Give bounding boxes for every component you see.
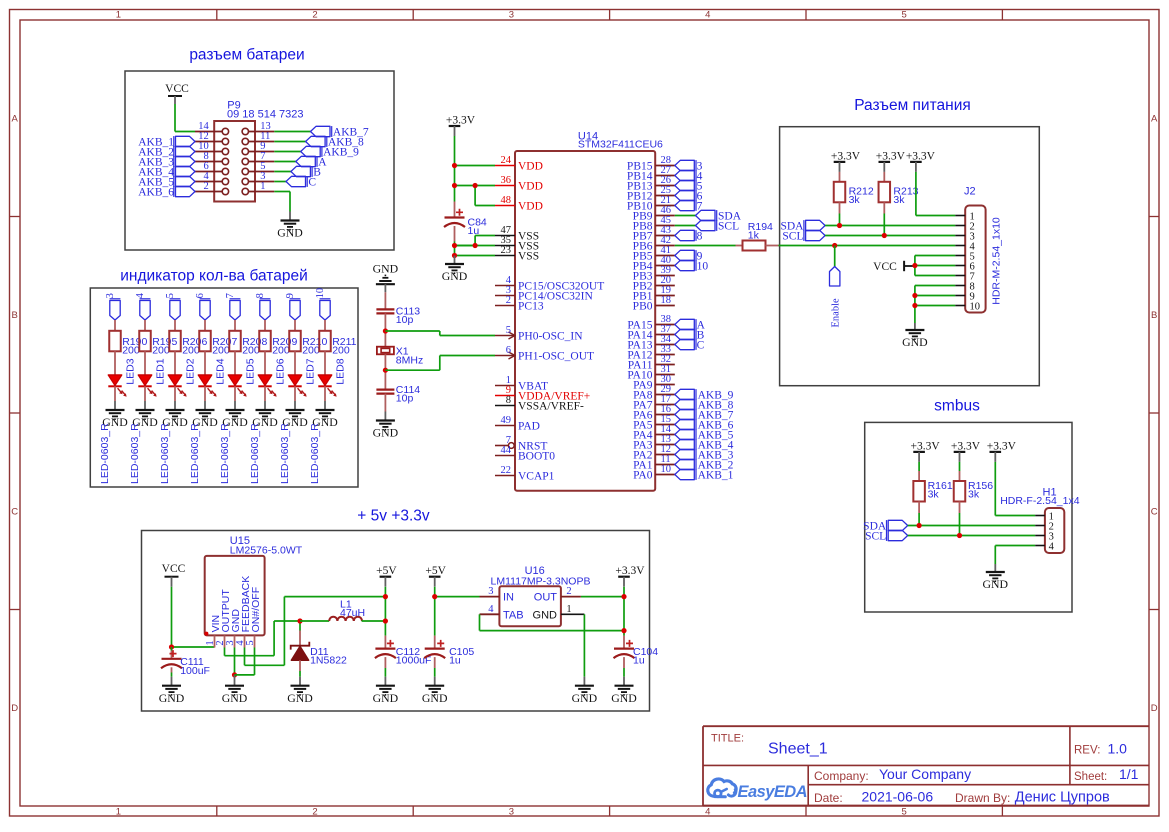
ground — [252, 401, 278, 429]
net flag AKB_7 — [675, 409, 734, 421]
net flag AKB_4 — [675, 439, 734, 451]
svg-text:A: A — [12, 114, 19, 125]
U14 pin 47 VSS — [495, 225, 539, 242]
svg-text:+ 5v +3.3v: + 5v +3.3v — [357, 508, 430, 525]
wire — [171, 667, 173, 676]
net flag AKB_9 — [675, 389, 734, 401]
section box + 5v +3.3v — [142, 531, 650, 712]
resistor R195 — [139, 331, 177, 357]
P9 pin 4 — [195, 171, 229, 185]
ground — [159, 677, 185, 705]
net flag SCL — [865, 530, 908, 542]
ground — [442, 256, 468, 284]
svg-text:LED6: LED6 — [274, 358, 286, 384]
svg-text:1.0: 1.0 — [1108, 740, 1128, 756]
ground — [162, 401, 188, 429]
J2 pin 7 — [955, 271, 974, 282]
svg-text:AKB_1: AKB_1 — [698, 469, 734, 481]
resistor R161 — [913, 462, 953, 502]
svg-text:GND: GND — [159, 691, 185, 705]
svg-text:4: 4 — [705, 10, 710, 21]
net flag B — [291, 166, 321, 178]
svg-text:Денис Цупров: Денис Цупров — [1015, 790, 1110, 806]
resistor R208 — [229, 331, 267, 357]
svg-text:EasyEDA: EasyEDA — [738, 783, 808, 801]
J2 pin 6 — [955, 261, 974, 272]
wire PB6 to R194 — [675, 245, 736, 247]
junction — [232, 672, 237, 677]
svg-text:3k: 3k — [968, 489, 980, 501]
wire — [434, 657, 436, 677]
junction — [452, 243, 457, 248]
resistor R210 — [289, 331, 327, 357]
P9 pin 6 — [195, 161, 229, 175]
wire P9 to AKB_8 — [274, 141, 305, 143]
junction — [621, 594, 626, 599]
wire R213 to SCL — [883, 202, 885, 235]
wire ON#/OFF to ground — [235, 648, 255, 675]
net flag SDA — [696, 210, 742, 222]
svg-text:5: 5 — [506, 325, 511, 336]
svg-text:VCC: VCC — [873, 261, 897, 273]
wire — [384, 354, 386, 390]
U14 pin 1 VBAT — [495, 375, 548, 392]
wire P9 to A — [274, 161, 296, 163]
svg-text:GND: GND — [222, 691, 248, 705]
svg-text:J2: J2 — [964, 185, 976, 197]
wire GND pin to ground — [234, 648, 236, 675]
P9 pin 1 — [242, 181, 274, 195]
svg-text:200: 200 — [332, 344, 350, 356]
connector H1 — [1045, 508, 1064, 553]
net flag 5 — [675, 180, 703, 192]
net flag AKB_7 — [311, 126, 369, 138]
net flag AKB_6 — [138, 186, 195, 198]
junction — [917, 523, 922, 528]
svg-text:LM1117MP-3.3NOPB: LM1117MP-3.3NOPB — [491, 575, 591, 587]
svg-text:1k: 1k — [748, 230, 760, 242]
net flag AKB_2 — [138, 146, 195, 158]
ground — [611, 677, 637, 705]
ground — [983, 564, 1009, 591]
net flag C — [286, 176, 316, 188]
U14 pin 45 PB8 — [633, 215, 675, 232]
svg-text:индикатор кол-ва батарей: индикатор кол-ва батарей — [120, 268, 307, 285]
capacitor C84 — [444, 202, 487, 238]
regulator U16 — [499, 586, 561, 626]
EasyEDA logo — [708, 779, 807, 801]
U16 pin 2 OUT — [534, 586, 581, 604]
net flag C — [675, 339, 705, 351]
resistor R213 — [879, 172, 919, 206]
U14 pin 44 BOOT0 — [495, 445, 555, 462]
svg-text:2: 2 — [204, 181, 209, 192]
svg-text:6: 6 — [506, 345, 511, 356]
wire — [174, 351, 176, 375]
net flag 8 — [255, 293, 270, 320]
U14 pin 38 PA15 — [627, 314, 674, 331]
junction — [473, 243, 478, 248]
wire SDA to J2 pin 2 — [825, 225, 955, 227]
ground — [192, 401, 218, 429]
svg-text:TAB: TAB — [503, 609, 524, 621]
svg-text:5: 5 — [165, 293, 176, 298]
wire — [204, 351, 206, 375]
section box разъем батареи — [125, 71, 394, 250]
svg-text:10: 10 — [970, 301, 981, 312]
U14 pin 12 PA2 — [633, 444, 675, 461]
wire — [114, 386, 116, 401]
U14 pin 7 NRST — [495, 435, 547, 452]
P9 pin 11 — [242, 131, 274, 145]
U14 pin 9 VDDA/VREF+ — [495, 385, 590, 402]
svg-text:1/1: 1/1 — [1119, 766, 1139, 782]
junction — [383, 328, 388, 333]
U14 pin 17 PA7 — [633, 394, 675, 411]
svg-text:2: 2 — [566, 586, 571, 597]
svg-text:REV:: REV: — [1074, 745, 1100, 757]
svg-text:ON#/OFF: ON#/OFF — [250, 587, 262, 633]
U14 pin 27 PB14 — [627, 165, 675, 182]
svg-text:LED-0603_R: LED-0603_R — [129, 423, 141, 484]
svg-text:100uF: 100uF — [180, 665, 210, 677]
wire — [234, 351, 236, 375]
wire +5V rail to C112 — [384, 587, 386, 649]
U16 pin 4 TAB — [480, 604, 524, 622]
LED LED6 — [258, 358, 286, 396]
U14 pin 5 PH0-OSC_IN — [495, 325, 583, 342]
power VCC — [162, 563, 186, 587]
junction — [882, 233, 887, 238]
svg-text:9: 9 — [285, 293, 296, 298]
wire — [204, 320, 206, 331]
svg-text:A: A — [1151, 114, 1158, 125]
svg-text:PAD: PAD — [518, 420, 540, 432]
svg-text:3k: 3k — [893, 194, 905, 206]
U14 pin 20 PB2 — [633, 275, 675, 292]
svg-text:5: 5 — [902, 806, 907, 817]
svg-text:Company:: Company: — [814, 769, 869, 783]
wire TAB to +3.3V rail — [480, 614, 625, 630]
svg-text:+5V: +5V — [425, 565, 446, 577]
svg-text:18: 18 — [661, 295, 672, 306]
wire +3.3V to H1 pin 1 — [995, 462, 1035, 516]
net flag SCL — [696, 220, 740, 232]
resistor R190 — [109, 331, 147, 357]
svg-text:GND: GND — [611, 691, 637, 705]
svg-text:GND: GND — [572, 691, 598, 705]
wire to PH0-OSC_IN — [385, 331, 495, 336]
LED LED4 — [198, 358, 226, 396]
U14 pin 39 PB3 — [633, 265, 675, 282]
wire D11 to L1 — [300, 620, 329, 622]
U14 pin 36 VDD — [495, 175, 543, 192]
svg-text:22: 22 — [501, 465, 512, 476]
U14 pin 28 PB15 — [627, 155, 675, 172]
U15 pin 3 GND — [225, 609, 242, 648]
svg-text:10: 10 — [697, 260, 709, 272]
capacitor C112 — [375, 640, 432, 667]
junction — [957, 533, 962, 538]
net flag AKB_8 — [306, 136, 364, 148]
U14 pin 6 PH1-OSC_OUT — [495, 345, 594, 362]
junction — [383, 618, 388, 623]
ground — [373, 412, 399, 440]
svg-text:GND: GND — [287, 691, 313, 705]
svg-text:2: 2 — [506, 295, 511, 306]
wire R156 to SCL — [959, 502, 961, 536]
wire P9 to AKB_9 — [274, 151, 300, 153]
net flag AKB_5 — [138, 176, 195, 188]
wire — [384, 313, 386, 346]
capacitor C104 — [614, 640, 659, 667]
U16 pin 3 IN — [480, 586, 515, 604]
U14 pin 49 PAD — [495, 415, 540, 432]
wire — [174, 386, 176, 401]
svg-text:smbus: smbus — [934, 398, 980, 415]
U14 pin 30 PA9 — [633, 374, 675, 391]
svg-text:09 18 514 7323: 09 18 514 7323 — [227, 109, 303, 121]
svg-text:1u: 1u — [449, 655, 461, 667]
net flag AKB_1 — [675, 469, 734, 481]
wire — [144, 320, 146, 331]
svg-text:49: 49 — [501, 415, 512, 426]
svg-text:GND: GND — [902, 335, 928, 349]
svg-text:AKB_6: AKB_6 — [138, 186, 174, 198]
net flag AKB_5 — [675, 429, 734, 441]
LED LED8 — [318, 358, 346, 396]
svg-text:C: C — [11, 507, 18, 518]
svg-text:200: 200 — [212, 344, 230, 356]
wire — [294, 386, 296, 401]
svg-text:разъем батареи: разъем батареи — [189, 47, 304, 64]
svg-text:200: 200 — [122, 344, 140, 356]
wire — [384, 394, 386, 412]
net flag 9 — [675, 250, 703, 262]
wire — [144, 351, 146, 375]
svg-text:+3.3V: +3.3V — [831, 150, 861, 162]
wire — [174, 320, 176, 331]
svg-text:2: 2 — [312, 806, 317, 817]
junction — [452, 183, 457, 188]
svg-text:10: 10 — [661, 464, 672, 475]
svg-text:STM32F411CEU6: STM32F411CEU6 — [578, 139, 663, 151]
net flag A — [675, 319, 706, 331]
wire R194 to J2 pin 4 — [779, 245, 956, 247]
capacitor C113 — [376, 306, 420, 327]
svg-text:7: 7 — [225, 293, 236, 298]
ground — [282, 401, 308, 429]
svg-text:8: 8 — [697, 230, 703, 242]
U14 pin 35 VSS — [495, 235, 539, 252]
resistor R206 — [169, 331, 207, 357]
ground — [422, 677, 448, 705]
power +3.3V — [906, 150, 936, 172]
svg-text:+3.3V: +3.3V — [911, 440, 941, 452]
U15 pin 1 VIN — [205, 615, 222, 648]
LED LED5 — [228, 358, 256, 396]
svg-text:BOOT0: BOOT0 — [518, 450, 555, 462]
svg-text:10p: 10p — [396, 393, 414, 405]
power +3.3V — [615, 565, 645, 587]
net flag 4 — [135, 292, 150, 320]
svg-text:48: 48 — [501, 195, 512, 206]
wire — [294, 320, 296, 331]
svg-text:VSSA/VREF-: VSSA/VREF- — [518, 400, 584, 412]
P9 pin 14 — [195, 121, 229, 135]
svg-text:Sheet_1: Sheet_1 — [768, 740, 828, 757]
net flag 10 — [675, 260, 709, 272]
U14 pin 25 PB12 — [627, 185, 675, 202]
svg-text:GND: GND — [373, 426, 399, 440]
svg-text:LED-0603_R: LED-0603_R — [99, 423, 111, 484]
svg-text:5: 5 — [902, 10, 907, 21]
svg-text:D: D — [11, 703, 18, 714]
svg-text:GND: GND — [442, 269, 468, 283]
svg-text:C: C — [308, 176, 316, 188]
net flag 9 — [285, 293, 300, 320]
svg-text:GND: GND — [533, 609, 558, 621]
U14 pin 23 VSS — [495, 245, 539, 262]
svg-text:B: B — [12, 310, 18, 321]
U15 pin 5 ON#/OFF — [245, 587, 262, 648]
net flag 8 — [675, 230, 703, 242]
P9 pin 8 — [195, 151, 229, 165]
svg-text:Enable: Enable — [831, 298, 842, 327]
U14 pin 4 PC15/OSC32OUT — [495, 275, 604, 292]
svg-text:IN: IN — [503, 592, 514, 604]
junction — [912, 293, 917, 298]
wire — [204, 386, 206, 401]
wire SCL to J2 pin 3 — [825, 235, 955, 237]
resistor R211 — [319, 331, 356, 357]
junction — [297, 618, 302, 623]
net flag SDA — [863, 520, 908, 532]
junction — [837, 223, 842, 228]
U14 pin 18 PB0 — [633, 295, 675, 312]
svg-text:Your Company: Your Company — [879, 766, 971, 782]
svg-text:200: 200 — [272, 344, 290, 356]
svg-text:LED1: LED1 — [154, 358, 166, 384]
U14 pin 15 PA5 — [633, 414, 675, 431]
svg-text:VCAP1: VCAP1 — [518, 470, 555, 482]
svg-text:LM2576-5.0WT: LM2576-5.0WT — [230, 544, 303, 556]
net flag 3 — [675, 160, 703, 172]
capacitor C105 — [424, 640, 474, 667]
J2 pin 9 — [955, 291, 974, 302]
crystal X1 — [377, 345, 423, 366]
svg-text:LED-0603_R: LED-0603_R — [249, 423, 261, 484]
wire +3.3V to J2 pin 1 — [916, 172, 955, 216]
U14 pin 40 PB4 — [633, 255, 675, 272]
svg-text:4: 4 — [1049, 541, 1055, 552]
ground — [572, 677, 598, 705]
wire — [144, 386, 146, 401]
power VCC — [873, 261, 915, 273]
svg-text:VDD: VDD — [518, 180, 543, 192]
svg-text:VCC: VCC — [162, 563, 186, 575]
svg-text:LED-0603_R: LED-0603_R — [219, 423, 231, 484]
wire J2 pins 8-10 to GND — [915, 286, 955, 324]
power +3.3V — [911, 440, 941, 462]
net flag AKB_8 — [675, 399, 734, 411]
svg-text:AKB_9: AKB_9 — [323, 146, 359, 158]
svg-text:GND: GND — [373, 691, 399, 705]
svg-text:10: 10 — [315, 288, 326, 299]
net flag AKB_9 — [301, 146, 359, 158]
svg-text:4: 4 — [705, 806, 710, 817]
resistor R194 — [736, 221, 779, 250]
section box индикатор кол-ва батарей — [90, 288, 358, 487]
connector J2 — [965, 206, 985, 313]
wire — [324, 351, 326, 375]
svg-text:1: 1 — [116, 10, 121, 21]
svg-text:1: 1 — [116, 806, 121, 817]
J2 pin 1 — [955, 211, 974, 222]
U14 pin 42 PB6 — [633, 235, 675, 252]
svg-text:SCL: SCL — [865, 530, 886, 542]
power +3.3V — [446, 114, 476, 136]
net flag 3 — [105, 293, 120, 320]
wire — [114, 320, 116, 331]
wire PB8 to SCL — [675, 225, 696, 227]
wire +5V to IN and C105 — [435, 587, 480, 649]
junction — [832, 243, 837, 248]
connector P9 — [214, 121, 255, 202]
junction — [452, 163, 457, 168]
ground — [102, 401, 128, 429]
net flag Enable — [830, 267, 842, 328]
svg-text:+3.3V: +3.3V — [951, 440, 981, 452]
U14 pin 3 PC14/OSC32IN — [495, 285, 593, 302]
svg-text:GND: GND — [983, 577, 1009, 591]
wire — [234, 386, 236, 401]
wire +3.3V rail to C104 — [623, 587, 625, 649]
svg-text:Sheet:: Sheet: — [1074, 771, 1107, 783]
H1 pin 4 — [1035, 541, 1054, 552]
U14 pin 33 PA12 — [627, 344, 674, 361]
wire C84 to VSS pins — [455, 226, 496, 256]
svg-text:47uH: 47uH — [340, 607, 365, 619]
junction — [452, 253, 457, 258]
svg-text:HDR-F-2.54_1x4: HDR-F-2.54_1x4 — [1000, 495, 1080, 507]
svg-text:VDD: VDD — [518, 200, 543, 212]
svg-text:10p: 10p — [396, 314, 414, 326]
svg-text:4: 4 — [488, 604, 494, 615]
title block — [703, 726, 1149, 806]
net flag 7 — [225, 293, 240, 320]
J2 pin 3 — [955, 231, 974, 242]
svg-text:LED-0603_R: LED-0603_R — [279, 423, 291, 484]
wire PB9 to SDA — [675, 215, 696, 217]
P9 pin 12 — [195, 131, 229, 145]
wire — [623, 657, 625, 677]
junction — [169, 644, 174, 649]
ground — [287, 677, 313, 705]
svg-text:1N5822: 1N5822 — [310, 655, 347, 667]
wire H1 pin 4 to GND — [995, 546, 1035, 565]
J2 pin 5 — [955, 251, 974, 262]
junction — [383, 368, 388, 373]
U14 pin 19 PB1 — [633, 285, 675, 302]
wire — [324, 320, 326, 331]
svg-text:B: B — [1151, 310, 1157, 321]
ground — [222, 401, 248, 429]
svg-text:8MHz: 8MHz — [396, 354, 423, 366]
svg-text:3: 3 — [509, 806, 514, 817]
wire to Enable — [834, 246, 836, 267]
net flag AKB_1 — [138, 136, 195, 148]
